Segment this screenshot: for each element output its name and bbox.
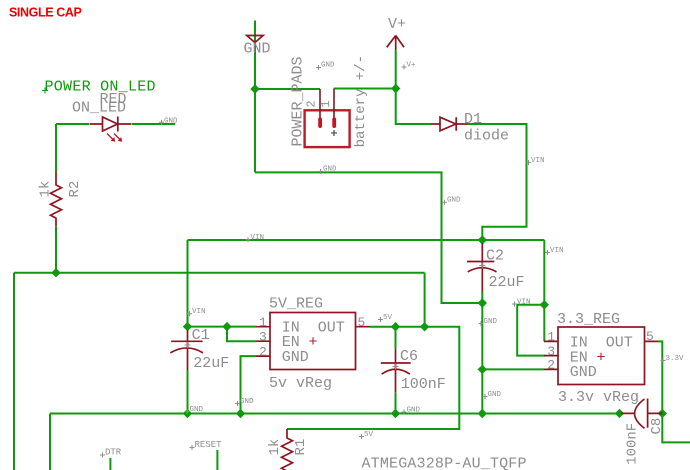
- net label GND (LED right): [159, 118, 178, 126]
- svg-text:GND: GND: [164, 118, 178, 126]
- net label 5V (pin5): [378, 314, 393, 322]
- svg-text:5V_REG: 5V_REG: [269, 296, 323, 313]
- junction EN loop: [222, 322, 231, 331]
- svg-text:2: 2: [259, 345, 267, 360]
- svg-text:GND: GND: [447, 197, 461, 205]
- wire LED left + vertical to R2: [56, 124, 89, 173]
- net label DTR: [100, 448, 122, 458]
- net label GND (x441): [442, 197, 461, 205]
- wire diode cathode down-left: [468, 124, 527, 240]
- svg-text:diode: diode: [464, 128, 509, 145]
- net label 3.3V: [661, 355, 685, 363]
- wire EN loop: [227, 327, 256, 342]
- wire C1/VIN to 5v reg pin1: [188, 326, 257, 328]
- wire RESET stub: [216, 450, 218, 470]
- net label VIN (right end): [545, 247, 564, 255]
- svg-text:1: 1: [259, 315, 267, 330]
- svg-text:GND: GND: [488, 391, 502, 399]
- regulator 5V_REG: [256, 313, 370, 370]
- wire VIN down to 3.3 reg: [517, 240, 545, 356]
- wire C1 bottom: [187, 371, 189, 414]
- svg-text:C6: C6: [400, 348, 418, 365]
- svg-text:GND: GND: [407, 407, 421, 415]
- net label GND (C1 bottom): [185, 406, 204, 414]
- svg-text:GND: GND: [282, 349, 309, 366]
- svg-text:GND: GND: [190, 406, 204, 414]
- resistor R1: [282, 429, 293, 470]
- svg-text:100nF: 100nF: [401, 376, 446, 393]
- svg-text:GND: GND: [244, 41, 271, 58]
- label POWER ON_LED: [42, 79, 156, 96]
- wire LED right to GND label: [132, 123, 175, 125]
- svg-text:R2: R2: [67, 181, 83, 198]
- junction C8 left: [615, 409, 624, 418]
- net label VIN (C1): [187, 308, 206, 316]
- svg-text:C1: C1: [192, 327, 210, 344]
- svg-text:5V: 5V: [383, 314, 393, 322]
- svg-text:3: 3: [259, 330, 267, 345]
- wire 3.3 pin2 to GND: [482, 368, 544, 370]
- net label GND (x482 lower): [483, 391, 502, 399]
- junction GND/battery-minus: [250, 84, 259, 93]
- wire rail to 5V: [424, 273, 426, 327]
- svg-text:1k: 1k: [267, 439, 283, 456]
- svg-text:GND: GND: [240, 398, 254, 406]
- junction pin2/GND x482: [478, 365, 487, 374]
- junction 5V/rail: [420, 322, 429, 331]
- supply symbol V+: [387, 16, 406, 50]
- wire GND bottom rail: [50, 414, 620, 470]
- svg-text:V+: V+: [407, 62, 417, 70]
- junction C6 top: [391, 322, 400, 331]
- svg-text:2: 2: [547, 358, 555, 373]
- svg-text:DTR: DTR: [105, 448, 122, 458]
- junction C8 right: [658, 409, 667, 418]
- svg-text:GND: GND: [323, 166, 337, 174]
- net label RESET: [190, 440, 223, 450]
- regulator 3.3_REG: [544, 327, 659, 385]
- svg-text:battery +/-: battery +/-: [353, 55, 369, 147]
- svg-text:VIN: VIN: [531, 157, 545, 165]
- svg-text:3: 3: [547, 344, 555, 359]
- svg-text:3.3v vReg: 3.3v vReg: [558, 389, 639, 406]
- LED D (ON_LED): [90, 117, 132, 142]
- junction reg2/GND: [236, 409, 245, 418]
- svg-text:C8: C8: [649, 418, 665, 435]
- net label VIN (diode): [526, 157, 545, 165]
- svg-text:+: +: [309, 334, 318, 351]
- svg-text:100nF: 100nF: [625, 423, 641, 465]
- capacitor C8: [621, 399, 662, 429]
- svg-text:VIN: VIN: [517, 298, 531, 306]
- junction V+: [391, 84, 400, 93]
- net label VIN (3.3 reg): [512, 298, 531, 306]
- svg-text:V+: V+: [388, 16, 406, 33]
- svg-text:RESET: RESET: [195, 440, 223, 450]
- svg-text:3.3_REG: 3.3_REG: [557, 311, 620, 328]
- net label GND (x482 upper): [479, 318, 498, 326]
- capacitor C6: [381, 327, 411, 393]
- svg-text:GND: GND: [570, 364, 597, 381]
- wire 5V output: [287, 327, 459, 429]
- capacitor C2: [467, 243, 497, 292]
- svg-text:VIN: VIN: [192, 308, 206, 316]
- svg-text:D1: D1: [464, 111, 482, 128]
- svg-text:5V: 5V: [364, 431, 374, 439]
- svg-text:5: 5: [646, 329, 654, 344]
- resistor R2: [51, 172, 62, 226]
- diode D1: [431, 117, 468, 131]
- junction C1/GND: [183, 409, 192, 418]
- junction C6/GND: [391, 409, 400, 418]
- junction VIN branch: [540, 300, 549, 309]
- wire C6 bottom: [395, 393, 397, 414]
- net label 5V (bottom): [359, 431, 374, 439]
- wire R2 bottom: [55, 226, 57, 272]
- svg-text:22uF: 22uF: [193, 355, 229, 372]
- wire rail y=273: [14, 273, 425, 470]
- svg-text:3.3V: 3.3V: [666, 355, 685, 363]
- svg-text:1: 1: [547, 329, 555, 344]
- junction C2/GND: [478, 298, 487, 307]
- net label GND (C6 bottom): [402, 407, 421, 415]
- wire VIN rail y=240: [188, 240, 545, 327]
- svg-text:5: 5: [358, 315, 366, 330]
- net label GND (reg2 bottom): [235, 398, 254, 406]
- svg-text:ATMEGA328P-AU_TQFP: ATMEGA328P-AU_TQFP: [362, 455, 527, 470]
- svg-text:GND: GND: [484, 318, 498, 326]
- wire GND horizontal under pads: [255, 172, 482, 303]
- svg-text:1k: 1k: [38, 181, 54, 198]
- net label V+ (small): [402, 62, 417, 70]
- junction x482/GND: [478, 409, 487, 418]
- junction VIN/C2: [478, 235, 487, 244]
- net label VIN (y240 left): [246, 234, 265, 242]
- wire battery minus to GND net: [255, 88, 320, 90]
- svg-text:VIN: VIN: [550, 247, 564, 255]
- svg-text:+: +: [597, 349, 606, 366]
- junction C1 top: [183, 322, 192, 331]
- wire C2 bottom: [481, 292, 483, 414]
- svg-text:22uF: 22uF: [489, 274, 525, 291]
- connector POWER_PADS: [305, 89, 350, 148]
- capacitor C1: [170, 330, 203, 371]
- svg-text:5v vReg: 5v vReg: [269, 375, 332, 392]
- wire DTR stub: [109, 458, 111, 470]
- svg-text:1: 1: [319, 100, 333, 107]
- junction R2/rail: [51, 268, 60, 277]
- wire 5v reg pin2 to GND: [241, 356, 257, 413]
- wire battery plus to V+: [334, 88, 396, 90]
- net label GND (y172): [318, 166, 337, 175]
- ground symbol GND (top): [244, 21, 271, 173]
- svg-text:2: 2: [305, 100, 319, 107]
- net label GND (battery pin2): [316, 62, 335, 71]
- svg-text:ON_LED: ON_LED: [72, 100, 126, 117]
- svg-text:VIN: VIN: [251, 234, 265, 242]
- svg-text:C2: C2: [486, 247, 504, 264]
- svg-text:SINGLE CAP: SINGLE CAP: [9, 6, 81, 20]
- svg-text:GND: GND: [321, 62, 335, 70]
- wire 3.3V output: [658, 341, 690, 442]
- svg-text:R1: R1: [293, 439, 309, 456]
- wire V+ shaft: [396, 50, 431, 124]
